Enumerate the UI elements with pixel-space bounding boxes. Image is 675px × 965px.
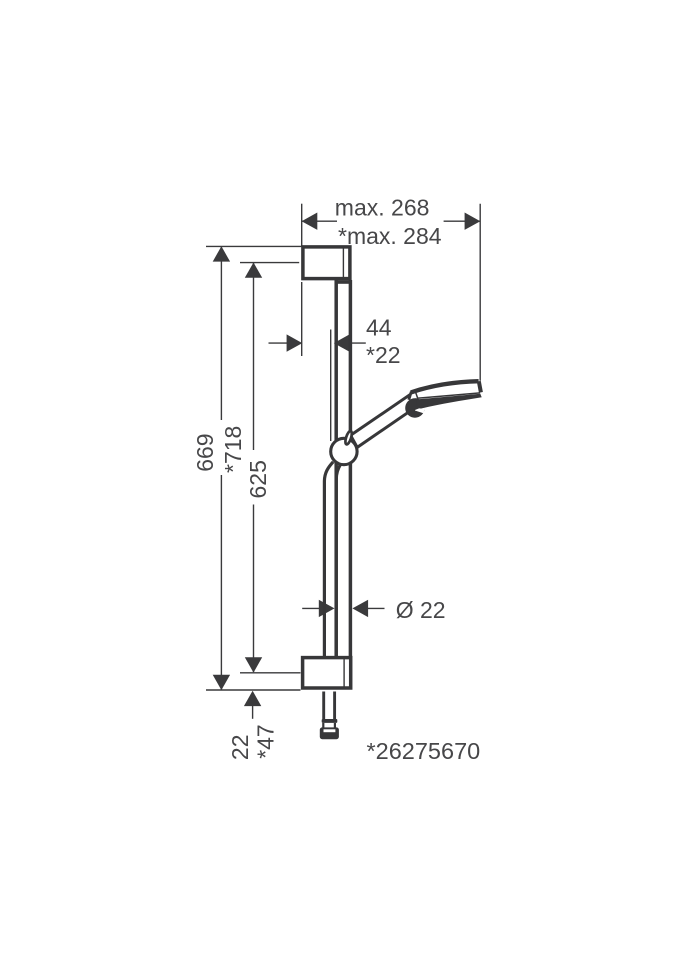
625 dimension arrow up: [245, 263, 262, 278]
holder pivot circle: [331, 438, 357, 464]
head face divider line: [417, 393, 480, 398]
head top edge: [411, 381, 479, 392]
head right edge: [479, 381, 481, 392]
holder clip: [344, 430, 353, 445]
669 dimension line lower part: [220, 475, 222, 690]
44 dimension arrow pointing right: [287, 334, 303, 351]
svg-text:*47: *47: [252, 724, 278, 759]
top dimension line left segment: [302, 220, 337, 222]
669 dimension arrow down: [213, 675, 230, 690]
extension line right of top width dimension: [479, 204, 481, 381]
svg-text:669: 669: [192, 433, 218, 471]
svg-text:44: 44: [366, 315, 392, 341]
669 dimension arrow up: [213, 246, 230, 261]
svg-text:max. 268: max. 268: [335, 194, 430, 220]
extension line bottom for 669 dimension: [206, 689, 301, 691]
diameter arrow pointing right at bar left edge: [319, 600, 335, 617]
extension line top for 625 dimension: [240, 262, 299, 264]
hose collar right edge: [334, 723, 336, 728]
625 dimension arrow down: [245, 657, 262, 672]
44 dimension line left: [269, 342, 289, 344]
625 dimension line lower part: [253, 505, 255, 673]
top dimension line right segment: [444, 220, 480, 222]
hose collar left edge: [322, 723, 324, 728]
svg-text:625: 625: [245, 460, 271, 498]
hose below bracket left edge: [322, 692, 325, 720]
extension line bottom for 625 dimension: [240, 672, 301, 674]
625 dimension line upper part: [253, 263, 255, 450]
hand shower head body: [409, 381, 481, 400]
bottom bracket inner line: [343, 658, 345, 688]
bottom offset dimension arrow up: [244, 691, 261, 706]
diameter arrow pointing left at bar right edge: [352, 600, 368, 617]
hose ferrule band: [322, 719, 338, 723]
svg-text:22: 22: [227, 735, 253, 761]
spray face band: [417, 394, 482, 409]
head neck inner line: [416, 393, 418, 399]
shower hose upper left edge: [324, 462, 333, 656]
shower hose upper right edge: [336, 464, 340, 656]
top wall bracket: [303, 247, 350, 279]
svg-text:*22: *22: [366, 342, 401, 368]
conical nut slot: [324, 729, 336, 732]
hose below bracket right edge: [333, 692, 336, 720]
handle of hand shower: [351, 393, 419, 447]
conical nut: [320, 727, 339, 739]
extension line left of top width dimension: [301, 204, 303, 247]
slide bar left edge: [334, 280, 338, 658]
slide bar right edge: [349, 280, 353, 658]
extension line wall face for 44 dimension: [301, 282, 303, 356]
extension line bar face for 44 dimension: [330, 330, 332, 442]
diameter dimension line left: [302, 607, 320, 609]
extension line top for 669 dimension: [206, 245, 302, 247]
44 dimension arrow pointing left: [334, 334, 350, 351]
end cap white notch: [415, 407, 425, 413]
svg-text:*26275670: *26275670: [367, 738, 481, 764]
diameter dimension line right: [368, 607, 385, 609]
top dimension arrow left: [302, 213, 318, 230]
bottom wall bracket: [303, 658, 351, 688]
top bracket clamp step: [335, 280, 352, 284]
svg-text:*max. 284: *max. 284: [338, 223, 442, 249]
spray face end cap: [405, 398, 424, 417]
bottom offset dimension tail line: [252, 706, 254, 719]
svg-text:*718: *718: [220, 426, 246, 473]
669 dimension line upper part: [220, 247, 222, 420]
44 dimension line right: [349, 342, 366, 344]
head left edge: [409, 392, 412, 400]
top dimension arrow right: [465, 213, 481, 230]
top bracket inner line: [342, 247, 344, 279]
svg-text:Ø 22: Ø 22: [396, 597, 446, 623]
